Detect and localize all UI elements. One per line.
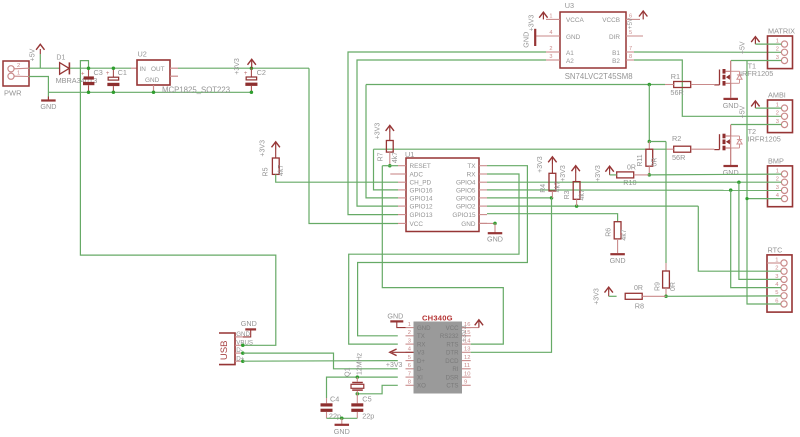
svg-text:D1: D1 <box>56 55 65 62</box>
svg-text:VCC: VCC <box>410 221 424 228</box>
svg-text:RTC: RTC <box>768 246 783 255</box>
svg-text:GPIO15: GPIO15 <box>452 212 476 219</box>
svg-text:V3: V3 <box>417 350 425 357</box>
svg-text:GND: GND <box>40 102 56 111</box>
svg-text:2: 2 <box>776 47 779 53</box>
svg-text:GPIO13: GPIO13 <box>410 212 434 219</box>
svg-text:U1: U1 <box>405 150 414 159</box>
svg-text:R9: R9 <box>655 282 662 291</box>
svg-text:U2: U2 <box>138 50 147 59</box>
svg-text:XI: XI <box>417 375 423 382</box>
svg-text:2: 2 <box>408 330 411 336</box>
svg-text:+: + <box>244 71 248 77</box>
svg-text:+3V3: +3V3 <box>594 288 601 305</box>
svg-text:22p: 22p <box>329 412 341 421</box>
svg-text:0R: 0R <box>652 158 659 167</box>
svg-text:56R: 56R <box>672 153 685 162</box>
svg-text:RS232: RS232 <box>440 333 459 340</box>
svg-text:+: + <box>81 72 85 78</box>
svg-text:R4: R4 <box>540 184 547 193</box>
svg-text:CTS: CTS <box>446 383 458 390</box>
svg-text:DIR: DIR <box>609 34 620 41</box>
svg-text:+3V3: +3V3 <box>537 156 544 173</box>
svg-text:AMBI: AMBI <box>768 91 786 100</box>
svg-text:7: 7 <box>408 371 411 377</box>
svg-text:USB: USB <box>219 340 230 360</box>
svg-text:10: 10 <box>464 371 470 377</box>
svg-text:CH_PD: CH_PD <box>410 180 432 187</box>
svg-text:TX: TX <box>417 333 425 340</box>
svg-text:2: 2 <box>549 46 552 52</box>
svg-text:VCC: VCC <box>446 325 459 332</box>
svg-text:IRFR1205: IRFR1205 <box>748 135 781 144</box>
svg-text:+5V: +5V <box>739 41 746 54</box>
svg-text:4k7: 4k7 <box>579 189 586 200</box>
svg-text:8: 8 <box>629 54 632 60</box>
svg-text:+3V3: +3V3 <box>386 362 403 369</box>
svg-text:MCP1825_SOT223: MCP1825_SOT223 <box>162 86 230 95</box>
svg-text:R3: R3 <box>564 190 571 199</box>
svg-text:5: 5 <box>775 290 778 296</box>
svg-text:GPIO5: GPIO5 <box>456 187 476 194</box>
svg-text:GND: GND <box>241 319 257 328</box>
svg-text:C3: C3 <box>94 68 103 77</box>
svg-text:4: 4 <box>549 30 552 36</box>
svg-text:TX: TX <box>467 163 476 170</box>
svg-text:0R: 0R <box>634 285 643 292</box>
svg-text:OUT: OUT <box>151 66 165 73</box>
svg-text:RTS: RTS <box>446 342 458 349</box>
svg-text:GND: GND <box>723 168 739 177</box>
svg-text:CH340G: CH340G <box>422 314 453 323</box>
svg-text:GND: GND <box>334 427 350 436</box>
svg-text:U3: U3 <box>565 1 574 10</box>
svg-text:DTR: DTR <box>446 350 459 357</box>
svg-text:VBUS: VBUS <box>236 339 253 346</box>
svg-text:Q1: Q1 <box>344 367 351 376</box>
svg-text:+3V3: +3V3 <box>560 165 567 182</box>
svg-text:B1: B1 <box>612 50 620 57</box>
svg-text:56R: 56R <box>670 88 683 97</box>
svg-text:RESET: RESET <box>410 163 431 170</box>
svg-text:GND: GND <box>521 32 530 48</box>
svg-text:ADC: ADC <box>410 171 424 178</box>
svg-text:11: 11 <box>464 363 470 369</box>
svg-text:B2: B2 <box>612 58 620 65</box>
svg-text:RX: RX <box>467 171 477 178</box>
svg-text:13: 13 <box>464 347 470 353</box>
svg-text:GPIO4: GPIO4 <box>456 180 476 187</box>
svg-text:3: 3 <box>549 54 552 60</box>
svg-text:5: 5 <box>408 355 411 361</box>
svg-text:DSR: DSR <box>446 375 459 382</box>
svg-text:1: 1 <box>17 71 20 77</box>
svg-text:R5: R5 <box>263 167 270 176</box>
svg-text:IRFR1205: IRFR1205 <box>740 69 773 78</box>
svg-text:8: 8 <box>408 380 411 386</box>
svg-text:GND: GND <box>723 101 739 110</box>
svg-text:IN: IN <box>140 66 147 73</box>
svg-text:+3V3: +3V3 <box>461 325 468 342</box>
svg-text:A2: A2 <box>566 58 574 65</box>
svg-text:VCCB: VCCB <box>602 17 620 24</box>
svg-text:+5V: +5V <box>739 105 746 118</box>
svg-text:GPIO16: GPIO16 <box>410 187 434 194</box>
svg-text:GND: GND <box>461 221 476 228</box>
svg-text:1: 1 <box>776 168 779 174</box>
svg-text:+: + <box>106 71 110 77</box>
svg-text:SN74LVC2T45SM8: SN74LVC2T45SM8 <box>565 72 633 81</box>
svg-text:+3V3: +3V3 <box>259 140 266 157</box>
svg-text:2: 2 <box>776 111 779 117</box>
svg-text:7: 7 <box>629 46 632 52</box>
svg-text:+5V: +5V <box>627 17 634 29</box>
svg-text:GND: GND <box>610 256 626 265</box>
svg-text:R11: R11 <box>637 154 644 166</box>
svg-text:5: 5 <box>629 30 632 36</box>
svg-text:C2: C2 <box>257 68 266 77</box>
svg-text:RI: RI <box>452 366 458 373</box>
svg-text:GPIO12: GPIO12 <box>410 204 434 211</box>
svg-text:0R: 0R <box>627 165 636 172</box>
svg-text:0R: 0R <box>670 282 677 291</box>
svg-text:1: 1 <box>549 14 552 20</box>
svg-text:C5: C5 <box>362 394 371 403</box>
svg-text:C1: C1 <box>118 68 127 77</box>
svg-text:+3V3: +3V3 <box>374 123 381 140</box>
svg-text:9: 9 <box>464 380 467 386</box>
svg-text:R2: R2 <box>672 134 681 143</box>
svg-text:R8: R8 <box>635 301 644 310</box>
svg-text:22p: 22p <box>362 412 374 421</box>
svg-text:MATRIX: MATRIX <box>768 27 795 36</box>
svg-text:GPIO0: GPIO0 <box>456 195 476 202</box>
svg-text:DCD: DCD <box>445 358 459 365</box>
svg-text:BMP: BMP <box>768 157 784 166</box>
svg-text:D+: D+ <box>417 358 425 365</box>
svg-text:GND: GND <box>487 234 503 243</box>
svg-text:+3V3: +3V3 <box>595 165 602 182</box>
svg-text:4k7: 4k7 <box>278 165 285 176</box>
svg-text:12: 12 <box>464 355 470 361</box>
svg-text:XO: XO <box>417 383 426 390</box>
svg-text:C4: C4 <box>330 394 339 403</box>
svg-text:2: 2 <box>17 63 20 69</box>
svg-text:1: 1 <box>408 322 411 328</box>
svg-text:GND: GND <box>145 77 160 84</box>
svg-text:6: 6 <box>408 363 411 369</box>
svg-text:+5V: +5V <box>29 48 36 61</box>
svg-text:GND: GND <box>417 325 431 332</box>
svg-text:PWR: PWR <box>4 89 22 98</box>
svg-text:RX: RX <box>417 342 425 349</box>
svg-text:+3V3: +3V3 <box>529 15 536 32</box>
svg-text:4k7: 4k7 <box>621 229 628 240</box>
svg-text:4k7: 4k7 <box>392 152 399 163</box>
svg-text:R6: R6 <box>605 228 612 237</box>
svg-text:3: 3 <box>408 338 411 344</box>
svg-text:GPIO14: GPIO14 <box>410 195 434 202</box>
svg-text:R1: R1 <box>671 72 680 81</box>
svg-text:+3V3: +3V3 <box>234 58 241 75</box>
svg-text:GND: GND <box>387 312 403 321</box>
svg-text:A1: A1 <box>566 50 574 57</box>
svg-text:GND: GND <box>566 34 581 41</box>
svg-text:12MHz: 12MHz <box>356 352 363 375</box>
svg-text:VCCA: VCCA <box>566 17 584 24</box>
svg-text:R7: R7 <box>377 152 384 161</box>
svg-text:D-: D- <box>417 366 423 373</box>
svg-text:1: 1 <box>775 257 778 263</box>
svg-text:GPIO2: GPIO2 <box>456 204 476 211</box>
